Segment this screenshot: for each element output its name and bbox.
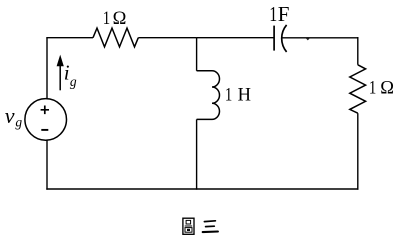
voltage source VG circle	[25, 99, 67, 141]
current arrow ig head	[57, 55, 64, 67]
svg-text:v: v	[5, 103, 15, 128]
svg-text:1: 1	[269, 2, 277, 26]
svg-text:1: 1	[369, 79, 376, 99]
svg-text:i: i	[64, 61, 70, 85]
wire from capacitor to top-right corner	[282, 37, 358, 39]
caption glyph 三 (three)	[203, 221, 218, 232]
wire top-left vertical (source top to top-left corner)	[46, 38, 48, 99]
svg-text:F: F	[278, 2, 290, 26]
svg-text:g: g	[70, 74, 77, 89]
voltage source plus sign	[41, 106, 49, 115]
resistor R1 zigzag	[93, 28, 138, 47]
capacitor C1 curved plate	[282, 25, 287, 52]
svg-text:H: H	[238, 86, 251, 106]
stray speck on wire near x=308	[306, 38, 310, 40]
wire top from corner to resistor R1	[46, 37, 93, 39]
svg-text:1: 1	[225, 86, 232, 106]
current arrow ig shaft	[59, 64, 61, 90]
svg-text:Ω: Ω	[380, 79, 394, 99]
wire right vertical upper (corner down to resistor R2)	[357, 37, 359, 65]
wire right vertical lower (resistor R2 to bottom-right corner)	[357, 113, 359, 190]
node A wire (top junction to capacitor left plate)	[197, 37, 275, 39]
svg-text:Ω: Ω	[113, 9, 127, 29]
resistor R2 vertical zigzag	[350, 65, 366, 113]
inductor L1 coil	[197, 71, 220, 120]
wire middle vertical upper (node A down to inductor)	[196, 38, 198, 71]
wire middle vertical lower (inductor to bottom wire)	[196, 119, 198, 189]
voltage source minus sign	[41, 129, 48, 131]
svg-text:g: g	[15, 115, 22, 130]
wire source bottom to bottom-left corner	[46, 140, 48, 190]
capacitor C1 left plate	[273, 26, 275, 51]
svg-text:1: 1	[103, 9, 110, 29]
caption glyph 圖 (Figure)	[183, 218, 194, 234]
wire bottom	[46, 188, 358, 190]
wire from resistor R1 to node A	[138, 37, 196, 39]
